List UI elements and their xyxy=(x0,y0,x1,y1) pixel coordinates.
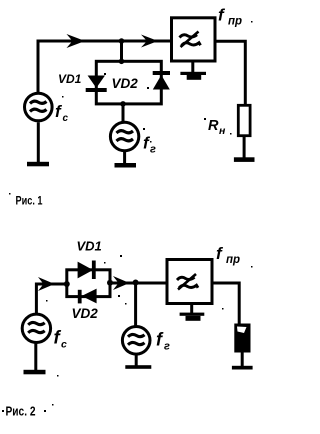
label fc (fig.1) xyxy=(55,102,69,124)
svg-text:г: г xyxy=(150,144,156,156)
svg-text:VD1: VD1 xyxy=(77,239,102,254)
resistor: load (filled dark, fig.2) xyxy=(234,324,250,353)
label fg (fig.2) xyxy=(156,330,170,353)
wire: load bottom lead (fig.2) xyxy=(241,353,244,367)
node: junction to heterodyne branch (fig.2) xyxy=(133,280,139,286)
source G3: signal source fc (fig.2) xyxy=(22,314,50,342)
resistor RH: load resistor (fig.1) xyxy=(238,105,250,135)
ground: below filter box (fig.2) xyxy=(180,304,205,321)
svg-text:Рис. 1: Рис. 1 xyxy=(16,194,43,208)
svg-text:f: f xyxy=(218,6,226,25)
filter symbol: crossed wavy lines inside U2 (fig.2) xyxy=(177,274,198,290)
svg-text:VD1: VD1 xyxy=(58,72,82,86)
node: right junction of diode loop (fig.2) xyxy=(107,280,113,286)
wire: fc source top lead and main horizontal wire to filter input (fig.1) xyxy=(38,41,172,93)
svg-text:R: R xyxy=(208,118,219,134)
svg-text:VD2: VD2 xyxy=(112,76,139,91)
wire: anti-parallel diode loop rectangle (fig.2) xyxy=(67,270,110,297)
ground: below signal source fc (fig.2) xyxy=(24,343,46,374)
label fg (fig.1) xyxy=(143,134,156,156)
svg-text:н: н xyxy=(219,125,226,137)
svg-text:VD2: VD2 xyxy=(72,306,99,321)
svg-text:с: с xyxy=(61,339,67,351)
label fc (fig.2) xyxy=(54,327,68,351)
node: left junction of diode loop (fig.2) xyxy=(64,281,70,287)
arrow: signal direction arrow into diode pair (fig.2) xyxy=(38,277,55,291)
wire: diode pair output to filter (fig.2) xyxy=(110,282,167,285)
svg-text:f: f xyxy=(216,244,224,263)
svg-text:с: с xyxy=(63,113,69,124)
svg-text:г: г xyxy=(164,341,170,353)
wire: resistor bottom lead (fig.1) xyxy=(243,136,246,159)
svg-text:пр: пр xyxy=(228,16,242,28)
ground: below heterodyne source (fig.1) xyxy=(115,151,137,167)
node: bottom junction of diode loop (fig.1) xyxy=(120,101,126,107)
wire: stub from main wire down to diode loop top rail (fig.1) xyxy=(120,41,123,62)
wire: stub down to heterodyne source (fig.2) xyxy=(134,283,137,327)
node: junction of main wire with diode branch (fig.1) xyxy=(119,38,125,44)
diode VD2 (fig.2, cathode left) xyxy=(78,289,97,304)
svg-text:пр: пр xyxy=(226,254,240,266)
arrow: signal direction arrow after diode pair (fig.2) xyxy=(113,276,130,290)
label RH (fig.1) xyxy=(208,118,226,137)
diode VD1 (fig.2, cathode right) xyxy=(78,261,96,280)
ground: below load resistor (fig.1) xyxy=(234,157,255,162)
label f_pr: IF output frequency (fig.2) xyxy=(216,244,240,266)
filter U2: IF bandpass filter box (fig.2) xyxy=(167,260,212,304)
ground: below filter box (fig.1) xyxy=(180,61,206,80)
ground: below signal source fc (fig.1) xyxy=(27,122,49,166)
diode VD2 (fig.1, cathode up) xyxy=(153,71,170,90)
wire: stub from diode loop bottom to heterodyne source (fig.1) xyxy=(122,104,125,122)
svg-text:Рис. 2: Рис. 2 xyxy=(6,405,36,419)
wire: filter output to load resistor (fig.1) xyxy=(215,41,245,105)
wire: diode parallel loop rectangle (fig.1) xyxy=(96,61,161,104)
ground: below heterodyne source (fig.2) xyxy=(125,355,151,369)
filter U1: IF bandpass filter box (fig.1) xyxy=(172,18,216,61)
ground: below load (fig.2) xyxy=(232,366,253,370)
source G4: heterodyne generator fg (fig.2) xyxy=(122,327,150,355)
source G1: signal source fc (fig.1) xyxy=(25,93,53,121)
wire: fc source lead up and to diode pair (fig.2) xyxy=(36,284,67,314)
svg-text:f: f xyxy=(156,330,164,350)
wire: filter output to load (fig.2) xyxy=(212,283,239,324)
arrow: signal direction arrow 1 on fig.1 main wire xyxy=(67,34,86,48)
node: top junction of diode loop (fig.1) xyxy=(119,59,125,65)
arrow: signal direction arrow 2 on fig.1 main wire xyxy=(141,35,158,48)
label f_pr: IF output frequency (fig.1) xyxy=(218,6,242,28)
filter symbol: crossed wavy lines inside U1 (fig.1) xyxy=(180,32,201,48)
source G2: heterodyne generator fg (fig.1) xyxy=(110,122,138,150)
diode VD1 (fig.1, cathode down) xyxy=(86,76,107,93)
scan noise specks xyxy=(2,21,253,412)
